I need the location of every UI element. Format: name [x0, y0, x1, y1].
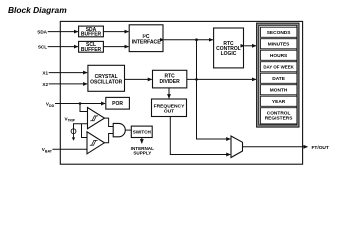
- wire SDA buffer to I2C interface: [103, 31, 128, 33]
- block switch: [131, 126, 152, 137]
- svg-text:VBAT: VBAT: [42, 147, 53, 153]
- svg-text:MINUTES: MINUTES: [268, 42, 290, 48]
- svg-text:LOGIC: LOGIC: [221, 51, 237, 57]
- wire VDD to POR: [55, 103, 105, 105]
- and gate (supply select): [113, 123, 125, 136]
- svg-text:SECONDS: SECONDS: [267, 30, 292, 36]
- comparator 2 (VBAT): [87, 132, 104, 154]
- wire RTC divider down to frequency out: [168, 88, 170, 98]
- svg-text:DIVIDER: DIVIDER: [159, 79, 180, 85]
- svg-text:FREQUENCY: FREQUENCY: [154, 103, 185, 109]
- wire gate to switch: [125, 129, 131, 131]
- svg-text:SUPPLY: SUPPLY: [133, 151, 151, 156]
- wire VTRIP vertical to comparator 2 input: [82, 124, 88, 138]
- block SCL buffer: [79, 41, 104, 52]
- block frequency out: [152, 99, 187, 117]
- register MINUTES: [260, 39, 297, 49]
- current source VTRIP: [71, 129, 76, 141]
- register YEAR: [260, 96, 297, 106]
- svg-text:SCL: SCL: [38, 45, 47, 50]
- register SECONDS: [260, 27, 297, 37]
- node junction VDD: [79, 102, 82, 105]
- wire switch to internal supply: [141, 138, 143, 144]
- register MONTH: [260, 85, 297, 95]
- wire control/divider node down to mux input 1: [197, 40, 231, 139]
- wire RTC divider to register file: [187, 78, 256, 80]
- wire comparator 1 output to gate: [105, 118, 114, 126]
- wire SCL buffer to I2C interface: [103, 46, 128, 48]
- wire comparator 2 output to gate: [104, 134, 113, 143]
- svg-text:YEAR: YEAR: [272, 99, 286, 105]
- label internal supply: [131, 146, 154, 156]
- svg-text:VDD: VDD: [46, 102, 55, 108]
- svg-text:VTRIP: VTRIP: [65, 117, 76, 123]
- wire SCL to SCL buffer: [48, 46, 78, 48]
- wire VBAT to comparator 2: [52, 148, 87, 150]
- wire VTRIP node to comparator inputs: [74, 124, 88, 129]
- svg-text:MONTH: MONTH: [270, 88, 288, 94]
- block RTC control logic: [214, 28, 244, 68]
- svg-text:CONTROL: CONTROL: [267, 110, 291, 116]
- svg-text:REGISTERS: REGISTERS: [265, 116, 294, 122]
- register CONTROL REGISTERS: [260, 108, 297, 124]
- wire RTC control logic to registers (bidirectional): [244, 45, 256, 47]
- svg-text:HOURS: HOURS: [270, 53, 288, 59]
- node junction on I2C-RTC wire: [195, 38, 198, 41]
- block I2C interface: [129, 25, 163, 52]
- block RTC divider: [153, 70, 187, 88]
- svg-text:OSCILLATOR: OSCILLATOR: [90, 79, 122, 85]
- wire X2 to crystal oscillator: [49, 83, 87, 85]
- svg-text:DAY OF WEEK: DAY OF WEEK: [263, 65, 294, 70]
- wire I2C interface to RTC control logic (bidirectional): [164, 39, 213, 41]
- register DATE: [260, 73, 297, 83]
- svg-text:FT/OUT: FT/OUT: [312, 145, 329, 151]
- svg-text:SWITCH: SWITCH: [133, 130, 152, 135]
- register HOURS: [260, 50, 297, 60]
- svg-text:Block Diagram: Block Diagram: [8, 5, 67, 15]
- register DAY OF WEEK: [260, 62, 297, 72]
- comparator 1 (VDD): [88, 108, 105, 129]
- svg-text:BUFFER: BUFFER: [81, 47, 102, 53]
- wire X1 to crystal oscillator: [49, 72, 87, 74]
- svg-text:SDA: SDA: [37, 30, 47, 35]
- svg-text:DATE: DATE: [272, 76, 286, 82]
- wire VDD down to comparator 1: [80, 104, 87, 112]
- node junction divider wire to mux drop: [195, 78, 198, 81]
- mux (output select): [231, 136, 243, 158]
- wire crystal oscillator to RTC divider: [125, 78, 152, 80]
- block crystal oscillator: [88, 65, 125, 91]
- svg-text:BUFFER: BUFFER: [81, 32, 102, 38]
- svg-text:OUT: OUT: [164, 109, 174, 115]
- svg-text:X1: X1: [42, 71, 48, 76]
- block SDA buffer: [79, 26, 104, 37]
- svg-text:X2: X2: [42, 82, 48, 87]
- svg-text:POR: POR: [112, 101, 123, 107]
- chip boundary box: [60, 21, 302, 164]
- wire frequency out down and right to mux input 2: [170, 117, 230, 155]
- block POR: [106, 97, 130, 109]
- block register file (outer double border): [257, 23, 299, 127]
- svg-text:INTERFACE: INTERFACE: [132, 40, 162, 46]
- wire mux to FT/OUT: [243, 146, 308, 148]
- wire SDA to SDA buffer: [48, 31, 78, 33]
